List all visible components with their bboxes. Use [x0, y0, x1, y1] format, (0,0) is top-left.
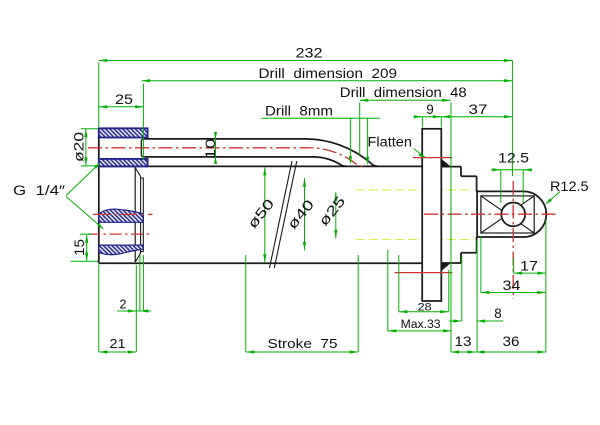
svg-text:8: 8 [494, 306, 501, 321]
extension line right end x=545.9 [545, 220, 547, 352]
svg-text:13: 13 [455, 334, 472, 349]
dimension Stroke 75 [246, 351, 358, 353]
dimension 232 [99, 60, 513, 62]
dimension Drill dimension 48 [360, 99, 451, 101]
dimension 17 [514, 272, 546, 274]
clevis pin hole Ø12.5 [501, 203, 525, 227]
svg-text:21: 21 [110, 337, 126, 351]
svg-text:10: 10 [202, 138, 218, 159]
svg-text:Stroke 75: Stroke 75 [268, 337, 338, 351]
flange plate [422, 129, 441, 301]
svg-text:G 1/4″: G 1/4″ [13, 183, 65, 198]
flatten mark top (red) [413, 157, 453, 159]
cap weld groove line 1 [140, 177, 142, 254]
rod-end step block B [461, 176, 477, 253]
oil pipe bottom line with bend [145, 157, 347, 166]
dimension Ø20 (vertical) [85, 129, 87, 166]
svg-text:ø20: ø20 [72, 132, 87, 162]
break line pair across barrel [270, 161, 297, 268]
hidden line (yellow) lower - drilled hole Ø25 bottom [356, 239, 474, 241]
extension line x=136.3 (21 right / 2 left) [135, 265, 137, 352]
G1/4 port upper hatched band (broken-out section) [99, 209, 143, 222]
oil pipe closed left end (rounded) [141, 139, 145, 157]
label Drill 8mm with underline leader [261, 117, 379, 119]
svg-text:Drill dimension 209: Drill dimension 209 [259, 65, 398, 81]
gland boss upper hatched band [99, 128, 148, 137]
dimension 2 [117, 310, 151, 312]
extension line x=448.8 (28 right) [448, 270, 450, 312]
extension line x=398.8 (28 left) [398, 255, 400, 312]
extension lines 12.5 dim [500, 170, 502, 203]
weld fillet triangle bottom [441, 263, 451, 271]
dimension 28 [399, 311, 449, 313]
dimension 13 [451, 351, 476, 353]
G1/4 port lower hatched band (broken-out section) [99, 245, 143, 255]
dimension 8 [449, 320, 462, 322]
svg-text:Flatten: Flatten [368, 134, 413, 149]
extension line x=451 (48 right, long down to 13) [450, 103, 452, 353]
rod-end step block A [441, 167, 461, 263]
dimension Drill dimension 209 [142, 80, 513, 82]
extension lines stroke dim [245, 255, 247, 352]
oil pipe top line with bend into body [145, 139, 379, 166]
dimension Ø40 (vertical) [304, 178, 306, 250]
clevis pin vertical centerline [512, 181, 514, 299]
svg-text:15: 15 [72, 239, 87, 256]
port axis centerline [88, 233, 151, 235]
dimension 36 [476, 351, 546, 353]
cap inner face line [134, 168, 136, 263]
svg-text:34: 34 [503, 278, 522, 293]
svg-text:37: 37 [469, 102, 488, 117]
dimension Max.33 [388, 330, 452, 332]
svg-text:R12.5: R12.5 [550, 179, 589, 194]
flatten mark bottom (red) [395, 272, 453, 274]
svg-text:25: 25 [115, 92, 133, 107]
svg-text:Drill dimension 48: Drill dimension 48 [340, 84, 467, 100]
extension line x=477.1 (eye left) [476, 240, 478, 352]
dimension 12.5 (pin hole) [491, 169, 532, 171]
hidden line (yellow) upper - drilled hole Ø25 top [356, 189, 474, 191]
extension line x=139.9 (2 dim) [139, 255, 141, 311]
cap chamfer bottom [135, 253, 140, 262]
extension line left end (long) [98, 63, 100, 128]
svg-text:2: 2 [120, 298, 127, 312]
svg-text:232: 232 [296, 45, 323, 61]
dimension 25 [99, 106, 144, 108]
dimension 37 [433, 115, 442, 118]
svg-text:36: 36 [503, 334, 520, 349]
extension line x=350.4 drill8 leader drop [349, 118, 351, 161]
extension line x=480.9 (34 left) [480, 236, 482, 293]
svg-text:Max.33: Max.33 [401, 319, 441, 331]
cap weld groove line 2 [141, 178, 144, 252]
svg-text:28: 28 [418, 301, 432, 313]
dimension 21 [99, 351, 137, 353]
extension line x=512.4 (long right, 232/209/37) [511, 61, 513, 177]
pipe centerline (red dash-dot) [88, 148, 363, 166]
svg-text:17: 17 [520, 259, 538, 274]
main axis centerline left segment [93, 213, 153, 215]
weld fillet triangle top [441, 159, 451, 167]
dimension 10 (pipe bore, vertical) [215, 135, 217, 161]
svg-text:Drill 8mm: Drill 8mm [265, 102, 333, 118]
extension line x=143.4 (drill start / 25) [142, 84, 144, 161]
clevis flat box with X diagonals [481, 196, 534, 233]
main axis centerline right segment [424, 213, 557, 215]
dimension 9 [414, 116, 513, 118]
extension line x=461.8 (8 left) [461, 256, 463, 321]
dimension 34 [481, 292, 546, 294]
cap chamfer top [135, 168, 140, 177]
clevis eye outline with rounded end R12.5 [477, 191, 546, 237]
extension line x=387.8 (Max33 left) [387, 250, 389, 331]
extension line 17 left [513, 258, 515, 273]
dimension Ø50 (vertical) [264, 167, 266, 263]
cylinder body outline [99, 128, 422, 263]
svg-text:9: 9 [426, 102, 434, 117]
dimension 15 (vertical) [86, 234, 88, 261]
gland boss lower hatched band [99, 159, 148, 167]
extension line x=359.7 (48 left) [359, 103, 361, 156]
svg-text:12.5: 12.5 [498, 150, 529, 166]
dimension Ø25 (vertical) [335, 192, 337, 238]
extension lines flange 9 dim [421, 117, 423, 128]
